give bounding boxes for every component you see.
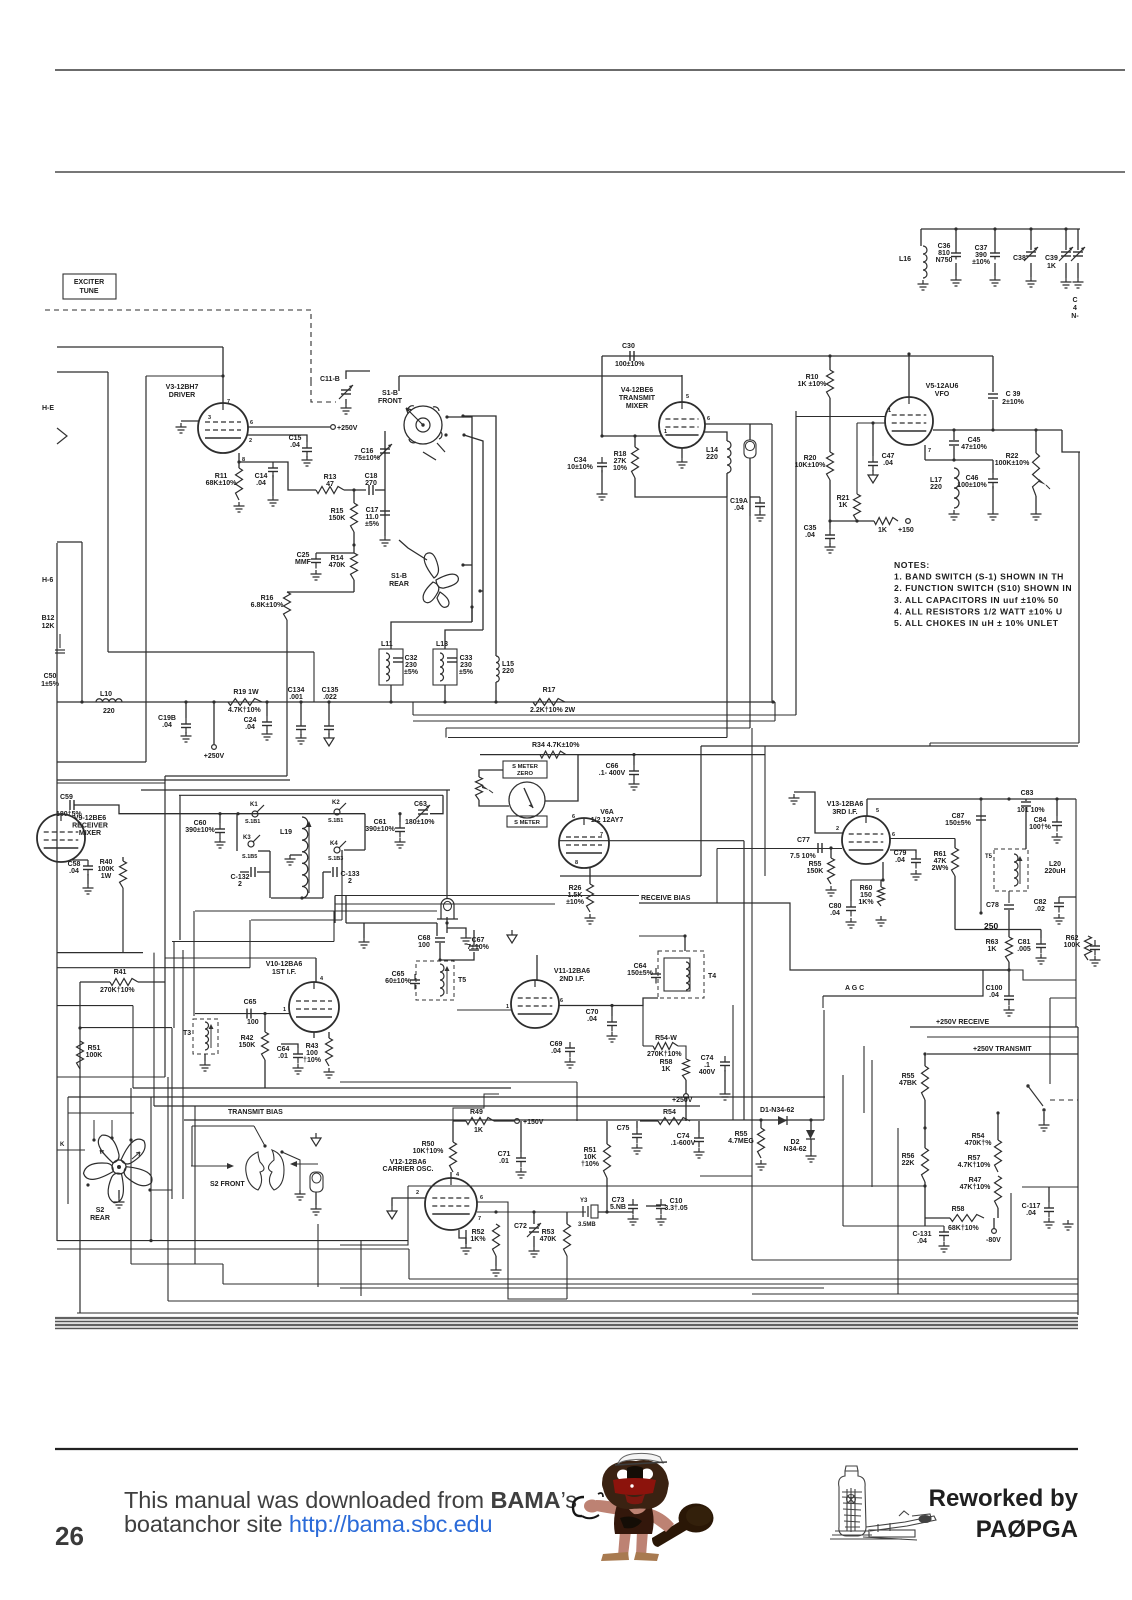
svg-text:4: 4 (320, 976, 324, 982)
svg-text:100K: 100K (86, 1052, 103, 1059)
svg-text:Reworked by: Reworked by (929, 1485, 1079, 1512)
svg-text:T4: T4 (708, 973, 716, 980)
svg-text:L19: L19 (280, 829, 292, 836)
svg-text:10±10%: 10±10% (567, 464, 593, 471)
node L17 top (952, 458, 955, 461)
wire y1120 long (184, 1119, 824, 1121)
wire R14 down to bias bus (353, 580, 355, 592)
wire C19B lead (185, 702, 187, 718)
svg-text:R15: R15 (331, 508, 344, 515)
node R10 top (828, 354, 831, 357)
node C66 (632, 753, 635, 756)
resistor R62 (1085, 936, 1092, 960)
wire y970 jog (1009, 970, 1076, 980)
svg-text:T3: T3 (183, 1030, 191, 1037)
capacitor C47 (872, 456, 874, 462)
ground C35 (829, 543, 831, 547)
svg-text:47: 47 (326, 481, 334, 488)
wire x342 ext (341, 872, 343, 920)
ground C19B (185, 732, 187, 736)
ground C17 (384, 536, 386, 540)
wire bus x165 (164, 776, 166, 1077)
wire C24 lead (266, 702, 268, 716)
svg-text:68K±10%: 68K±10% (206, 480, 237, 487)
svg-text:B12: B12 (42, 615, 55, 622)
node S2r c4 (86, 1183, 89, 1186)
wire pot to meter (479, 800, 509, 806)
wire y1088 long (133, 1087, 511, 1089)
svg-text:.04: .04 (734, 505, 744, 512)
svg-text:R60: R60 (860, 885, 873, 892)
wire C18 to riser (375, 489, 385, 491)
wire y1028 (80, 1027, 172, 1029)
wire R54w right (678, 1046, 686, 1059)
wire L11 to bus (390, 685, 392, 702)
wire C67 branch (440, 952, 474, 960)
svg-text:150: 150 (860, 892, 872, 899)
resistor R60 (878, 887, 885, 906)
wire C68 top (436, 923, 438, 936)
ground C74b (724, 1090, 726, 1094)
wire pin3 stub (459, 1230, 466, 1244)
wire R20 down (829, 480, 831, 529)
wire y715 (413, 714, 796, 716)
ground C36 (955, 276, 957, 280)
wire meter to V6A (545, 755, 578, 801)
wire V4 cathode gnd lead (681, 448, 683, 458)
wire band line2 (55, 1321, 1078, 1323)
svg-text:.04: .04 (256, 480, 266, 487)
svg-text:100±10%: 100±10% (957, 482, 987, 489)
node y799 b (1007, 797, 1010, 800)
wire R21 top col (856, 423, 858, 494)
resistor R18 (632, 447, 639, 478)
resistor R22 pot (1033, 453, 1040, 496)
node V5 out a (952, 428, 955, 431)
node D1 left (759, 1118, 762, 1121)
wire left y1245 run (340, 1186, 408, 1245)
node S1B rear c1 (461, 563, 464, 566)
wire x864 col (863, 1046, 865, 1113)
svg-text:2W%: 2W% (932, 865, 950, 872)
wire R56c gnd col (924, 1186, 926, 1226)
wire R53 low (566, 1256, 568, 1299)
resistor R52 (493, 1224, 500, 1256)
rotary switch S1-B front (404, 406, 442, 444)
crystal Y1 (437, 899, 458, 920)
svg-text:R13: R13 (324, 474, 337, 481)
capacitor C11-B trimmer (341, 389, 351, 391)
wire x824 col (823, 1010, 825, 1120)
node bus j1 (184, 700, 187, 703)
terminal +150V osc (515, 1119, 520, 1124)
capacitor C59 (69, 800, 71, 810)
ground R52 (495, 1266, 497, 1270)
footer separator rule (55, 1448, 1078, 1450)
svg-text:.04: .04 (162, 722, 172, 729)
tube V5 12AU6 VFO (885, 397, 933, 445)
svg-text:±5%: ±5% (365, 521, 380, 528)
wire R55b-R56b (924, 1100, 926, 1148)
svg-text:100K±10%: 100K±10% (995, 460, 1030, 467)
svg-text:K4: K4 (330, 841, 338, 847)
resistor R20 (827, 452, 834, 480)
wire V11 grid (457, 1009, 511, 1011)
capacitor C71 (520, 1152, 522, 1158)
wire R40 top (122, 857, 124, 861)
svg-text:R10: R10 (806, 374, 819, 381)
svg-text:R14: R14 (331, 555, 344, 562)
node S2f c1 (263, 1144, 266, 1147)
svg-text:C32: C32 (405, 655, 418, 662)
wire y1264 jog (222, 1264, 224, 1284)
wire R52 low (495, 1256, 497, 1266)
wire C82 arm (1059, 896, 1076, 898)
wire y783 (57, 782, 165, 784)
svg-text:.04: .04 (805, 532, 815, 539)
capacitor C67 (469, 945, 479, 947)
node R51b low (605, 1210, 608, 1213)
wire y958 (165, 957, 316, 959)
wire R60 top lead (880, 880, 882, 887)
ground C24 (266, 730, 268, 734)
wire left stub 542 (57, 541, 82, 543)
node C61 (398, 812, 401, 815)
svg-text:C-117: C-117 (1022, 1203, 1041, 1210)
wire L15 to bus (495, 682, 497, 702)
svg-text:.1- 400V: .1- 400V (599, 770, 626, 777)
wire D2 top lead (810, 1120, 812, 1130)
ground C19A (759, 511, 761, 515)
wire C70 lead (611, 1006, 613, 1017)
node S2r c2 (110, 1136, 113, 1139)
wire y929 link (955, 929, 1041, 931)
svg-text:ZERO: ZERO (517, 771, 534, 777)
ground V4 cathode (681, 458, 683, 462)
ground S2f arm (299, 1190, 301, 1194)
ground C80 (850, 918, 852, 922)
svg-text:VFO: VFO (935, 391, 950, 398)
svg-text:2. FUNCTION SWITCH (S10) SHOWN: 2. FUNCTION SWITCH (S10) SHOWN IN (894, 583, 1072, 593)
wire V4 pin6 run (705, 423, 772, 425)
terminal -80V (992, 1229, 997, 1234)
wire R53 top (566, 1212, 568, 1224)
capacitor C73 (632, 1199, 634, 1205)
wire R61 low (954, 876, 956, 930)
wire x80 col (79, 982, 81, 1313)
resistor R61 (952, 848, 959, 876)
wire y1187 right (1022, 1186, 1078, 1188)
resistor R54w (653, 1043, 678, 1050)
ground V12 cathode (465, 1244, 467, 1248)
svg-text:C78: C78 (986, 902, 999, 909)
resistor R40 (120, 861, 127, 888)
inductor L11 (386, 653, 390, 681)
wire R51b top (606, 1121, 608, 1144)
tube V9 12BE6 receive mixer (37, 814, 85, 862)
node Y1 out (445, 921, 448, 924)
ground L16 (922, 280, 924, 284)
svg-text:1K: 1K (988, 946, 997, 953)
capacitor C25 (315, 553, 317, 559)
resistor R53 (564, 1224, 571, 1256)
wire band line4 (55, 1328, 1078, 1330)
relay contact K1 (252, 811, 258, 817)
node C35 j (828, 519, 831, 522)
node K row a (218, 812, 221, 815)
wire R63 low (1008, 962, 1010, 970)
wire x172 col (171, 1028, 173, 1199)
svg-text:.04: .04 (587, 1016, 597, 1023)
wire Y3 right (598, 1211, 607, 1213)
wire R13 to junction (344, 489, 366, 491)
svg-text:68K†10%: 68K†10% (948, 1225, 980, 1232)
wire x823 drop (822, 996, 824, 1008)
wire cathode to R13 (273, 462, 316, 490)
wire C39b lower (992, 400, 994, 430)
svg-text:R62: R62 (1066, 935, 1079, 942)
svg-text:220uH: 220uH (1044, 868, 1065, 875)
svg-text:2.2K†10% 2W: 2.2K†10% 2W (530, 707, 576, 714)
node bank j1 (954, 227, 957, 230)
svg-text:6.8K±10%: 6.8K±10% (251, 602, 284, 609)
ground C34 (601, 490, 603, 494)
wire V12 pin4 (450, 1172, 452, 1178)
svg-text:4: 4 (1073, 305, 1077, 312)
wire y1113 stub (68, 1112, 134, 1114)
wire R41 left (80, 981, 110, 983)
capacitor C34 (601, 457, 603, 463)
wire y1226 left ext (843, 1225, 898, 1227)
svg-text:100K: 100K (1064, 942, 1081, 949)
wire bottom y1241 (57, 1240, 408, 1242)
wire V5 out bus (933, 429, 1062, 431)
svg-text:1: 1 (283, 1007, 286, 1013)
terminal +150V vfo (906, 519, 911, 524)
svg-text:R34 4.7K±10%: R34 4.7K±10% (532, 742, 580, 749)
svg-text:L10: L10 (100, 691, 112, 698)
ground L17 (953, 510, 955, 514)
wire x194 riser (193, 911, 195, 1016)
node R55 top (829, 846, 832, 849)
svg-text:S.1B1: S.1B1 (245, 819, 260, 825)
resistor R49 (466, 1118, 494, 1125)
ground extra right (1067, 1220, 1069, 1224)
svg-text:R26: R26 (569, 885, 582, 892)
svg-text:C17: C17 (366, 507, 379, 514)
svg-text:V3-12BH7: V3-12BH7 (166, 384, 199, 391)
capacitor C19B (185, 718, 187, 724)
svg-text:150±5%: 150±5% (945, 820, 971, 827)
wire V10 pin4 (315, 958, 317, 982)
diode D2 (806, 1130, 815, 1139)
capacitor C38 trimmer (1026, 251, 1036, 253)
ground edge frag (1077, 278, 1079, 282)
wire R42 top (264, 1014, 266, 1032)
svg-text:C38: C38 (1013, 255, 1026, 262)
wire x1011 col (1010, 1193, 1012, 1260)
wire -80V lead (993, 1218, 995, 1229)
svg-text:EXCITER: EXCITER (74, 279, 104, 286)
wire C67 up (473, 930, 475, 945)
svg-text:R63: R63 (986, 939, 999, 946)
svg-text:C65: C65 (244, 999, 257, 1006)
node L13 bus (443, 700, 446, 703)
wire x154 col (153, 953, 155, 1106)
wire cathode row (851, 879, 883, 881)
wire bus x750 low (749, 516, 751, 728)
capacitor C80 (850, 901, 852, 907)
tube V3 12BH7 driver (198, 403, 248, 453)
wire x131 col (130, 1088, 132, 1264)
resistor R11 (236, 468, 243, 500)
svg-text:1/2 12AY7: 1/2 12AY7 (591, 817, 624, 824)
slug arrow L19 (308, 824, 310, 893)
ground R26 (589, 914, 591, 918)
svg-text:+250V: +250V (672, 1097, 693, 1104)
svg-text:R42: R42 (241, 1035, 254, 1042)
node pin7 j2 (532, 1210, 535, 1213)
wire R21 R23 bus (830, 520, 874, 522)
svg-text:C80: C80 (829, 903, 842, 910)
svg-text:C72: C72 (514, 1223, 527, 1230)
wire V6A plate (560, 840, 744, 842)
wire receive bias (639, 903, 1009, 970)
svg-text:S.1B3: S.1B3 (328, 856, 343, 862)
svg-text:26: 26 (55, 1521, 84, 1551)
wire V3 pin2 run (247, 435, 307, 442)
node D2 top (809, 1118, 812, 1121)
ground crystal S2 (315, 1205, 317, 1209)
svg-text:C70: C70 (586, 1009, 599, 1016)
svg-text:150K: 150K (239, 1042, 256, 1049)
wire y970 right (860, 969, 1009, 971)
wire C19A branch (750, 496, 760, 498)
wire S2r left in (57, 1149, 85, 1151)
svg-text:C100: C100 (986, 985, 1003, 992)
inductor T5b (1014, 854, 1018, 886)
wire grid bus to V3 (57, 346, 223, 348)
capacitor C17 (380, 510, 390, 512)
wire C79 stub (890, 850, 916, 853)
svg-text:V10-12BA6: V10-12BA6 (266, 961, 303, 968)
svg-text:1ST I.F.: 1ST I.F. (272, 969, 296, 976)
wire C83 col (1025, 799, 1027, 801)
arrow left edge (57, 428, 67, 444)
capacitor C135 (328, 720, 330, 726)
ground right edge frag (1094, 956, 1096, 960)
resistor R16 (284, 592, 291, 620)
svg-text:NOTES:: NOTES: (894, 560, 930, 570)
svg-text:75±10%: 75±10% (354, 455, 380, 462)
wire K1-K3 left (236, 814, 238, 851)
wire x361 col (360, 1241, 362, 1296)
wire y1186 mid (408, 1185, 925, 1187)
resistor R23 (874, 518, 898, 525)
capacitor C58 (87, 860, 89, 866)
svg-text:6: 6 (560, 998, 563, 1004)
node S1B contact a (445, 415, 448, 418)
node y799 c (1055, 797, 1058, 800)
node L19 bottom (300, 896, 303, 899)
wire R15 top lead (353, 490, 355, 503)
wire R61 top lead (954, 839, 956, 849)
tube sketch (830, 1466, 936, 1540)
capacitor edge frag trimmer (1073, 251, 1083, 253)
resistor R54c (658, 1118, 690, 1125)
capacitor C79 (915, 853, 917, 859)
wire C117 top (1048, 1187, 1050, 1202)
svg-text:4.7K†10%: 4.7K†10% (228, 707, 261, 714)
svg-text:C134: C134 (288, 687, 305, 694)
svg-text:3RD I.F.: 3RD I.F. (832, 809, 857, 816)
svg-text:V5-12AU6: V5-12AU6 (926, 383, 959, 390)
wire x68 (67, 1097, 69, 1204)
wire right bus x1078 (1077, 1027, 1079, 1315)
ground C69 (569, 1058, 571, 1062)
ground C100 (1008, 1006, 1010, 1010)
wire y1077 (57, 1076, 165, 1078)
svg-text:1K: 1K (878, 527, 887, 534)
ground C-117 (1048, 1218, 1050, 1222)
svg-text:C77: C77 (797, 837, 810, 844)
svg-text:7: 7 (478, 1216, 481, 1222)
svg-text:2: 2 (836, 826, 839, 832)
ground Y1 arm (465, 934, 467, 938)
svg-text:S1-B: S1-B (391, 573, 407, 580)
svg-text:100†%: 100†% (1029, 824, 1052, 831)
svg-text:C75: C75 (617, 1125, 630, 1132)
wire bus x727 low (726, 497, 728, 738)
transformer T4 box (658, 951, 704, 998)
wire C72 top (533, 1212, 535, 1224)
wire C66 lead (633, 755, 635, 765)
svg-text:+250V RECEIVE: +250V RECEIVE (936, 1019, 989, 1026)
node y970 j (1007, 968, 1010, 971)
capacitor C84 (1056, 816, 1058, 822)
wire y790 long (141, 789, 450, 791)
svg-text:C24: C24 (244, 717, 257, 724)
svg-text:R52: R52 (472, 1229, 485, 1236)
tube V11 12BA6 2nd IF (511, 980, 559, 1028)
crystal Y3 (582, 1206, 584, 1217)
svg-text:6: 6 (707, 416, 710, 422)
svg-text:1K ±10%: 1K ±10% (798, 381, 828, 388)
wire y776 bus (165, 775, 287, 777)
switch S10 blade (1028, 1086, 1043, 1106)
wire top-right bank bus (921, 228, 1080, 230)
wire V13 cathode (882, 862, 884, 880)
wire Y2 bottom (749, 458, 751, 516)
svg-text:R17: R17 (543, 687, 556, 694)
svg-text:5: 5 (686, 394, 689, 400)
capacitor C46 (992, 473, 994, 479)
wire x447 crystal feed (446, 790, 448, 898)
svg-text:±5%: ±5% (459, 669, 474, 676)
svg-text:.04: .04 (895, 857, 905, 864)
crystal Y2 holder (744, 440, 756, 458)
wire y746 upper (701, 745, 1078, 747)
svg-text:C-133: C-133 (340, 871, 359, 878)
wire y904 left (335, 903, 555, 905)
svg-text:150±5%: 150±5% (627, 970, 653, 977)
slug arrow T3 (210, 1026, 212, 1048)
wire R10 top (829, 356, 831, 370)
svg-text:R61: R61 (934, 851, 947, 858)
svg-text:RECEIVER: RECEIVER (72, 823, 108, 830)
wire +250V receive rail (910, 1026, 1078, 1028)
capacitor C74 (698, 1132, 700, 1138)
